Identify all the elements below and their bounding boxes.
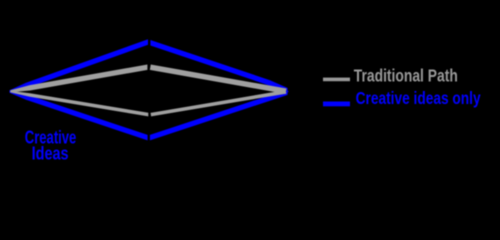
node: right endpoint tip fill	[286, 89, 288, 94]
legend swatch: Traditional Path (gray line)	[323, 78, 350, 82]
wire: gray path upper-left segment	[10, 65, 147, 93]
wire: blue path lower-left segment	[10, 90, 148, 140]
svg-text:Creative ideas only: Creative ideas only	[356, 88, 481, 108]
svg-text:Ideas: Ideas	[32, 143, 69, 164]
legend swatch: Creative ideas only (blue line)	[323, 102, 350, 107]
wire: blue path upper-left segment	[10, 39, 149, 92]
wire: blue path lower-right segment	[150, 91, 288, 140]
wire: gray path lower-right segment	[151, 92, 286, 115]
wire: gray path upper-right segment	[150, 67, 286, 91]
wire: gray path lower-left segment	[10, 91, 148, 117]
wire: blue path upper-right segment	[150, 40, 287, 92]
svg-text:Traditional Path: Traditional Path	[354, 65, 458, 85]
